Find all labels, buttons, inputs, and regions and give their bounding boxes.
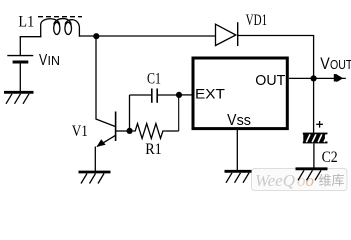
wire: riser up to node C <box>178 95 180 131</box>
svg-text:EXT: EXT <box>195 86 225 102</box>
battery VIN <box>7 56 33 62</box>
svg-text:R1: R1 <box>145 141 162 158</box>
svg-text:L1: L1 <box>18 13 34 30</box>
diode VD1 <box>216 22 238 46</box>
transistor V1 <box>96 112 130 147</box>
ground (VIN) <box>4 92 34 104</box>
wire: left horizontal into coil <box>20 36 42 38</box>
svg-text:ss: ss <box>237 112 251 129</box>
ground (C2) <box>296 169 328 181</box>
svg-text:C2: C2 <box>322 149 338 166</box>
wire: base node up to C1 <box>129 95 131 131</box>
L1 core dashed line <box>38 16 82 18</box>
ground (Vss) <box>225 171 252 183</box>
node A (junction top) <box>93 33 99 39</box>
output arrowhead <box>334 74 337 81</box>
svg-text:V: V <box>39 52 47 69</box>
svg-text:VD1: VD1 <box>246 12 268 29</box>
wire: C1 right lead to node C <box>158 94 179 96</box>
watermark box <box>252 169 348 191</box>
wire: OUT pin to arrow <box>289 77 346 79</box>
capacitor C1 <box>152 89 157 103</box>
svg-text:C1: C1 <box>147 70 161 87</box>
wire: battery to ground <box>19 64 21 92</box>
op-amp U1 (regulator IC box) <box>193 58 287 129</box>
wire: right vertical down to C2 <box>313 36 315 134</box>
node C (EXT node) <box>176 92 182 98</box>
svg-text:WeeQ: WeeQ <box>255 171 295 190</box>
svg-text:V: V <box>227 112 237 129</box>
wire: C2 to ground <box>313 144 315 169</box>
wire: R1 right to riser <box>165 130 178 132</box>
wire: node C to EXT pin <box>179 94 192 96</box>
svg-text:IN: IN <box>48 54 60 68</box>
wire: left vertical to battery <box>19 37 21 55</box>
capacitor C2 (polarized) <box>303 133 328 144</box>
wire: collector drop from node A <box>95 36 97 119</box>
node B (base junction) <box>127 128 133 134</box>
wire: diode cathode to right corner <box>238 35 314 37</box>
svg-text:OUT: OUT <box>330 57 351 72</box>
svg-text:V: V <box>320 54 330 73</box>
svg-text:维库: 维库 <box>319 173 345 188</box>
resistor R1 <box>133 124 166 139</box>
ground (V1 emitter) <box>79 172 111 184</box>
svg-text:OUT: OUT <box>255 72 285 89</box>
svg-text:V1: V1 <box>72 123 88 140</box>
node D (OUT junction) <box>311 75 317 81</box>
transistor emitter arrowhead <box>97 139 106 147</box>
wire: Vss to ground <box>236 130 238 170</box>
plus sign <box>316 121 323 128</box>
wire: C1 left lead <box>130 94 152 96</box>
wire: emitter to ground <box>94 147 96 172</box>
wire: top rail from coil to diode <box>79 35 216 37</box>
inductor L1 <box>41 19 80 37</box>
